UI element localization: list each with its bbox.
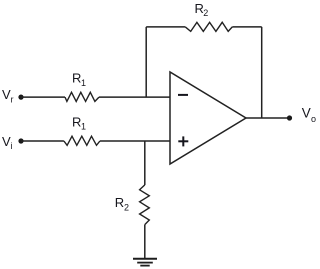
wire feedback top left horizontal [146, 26, 185, 28]
op-amp plus sign [178, 136, 188, 146]
wire R1 to non-inverting input [100, 140, 170, 142]
label R1 (top) [72, 71, 86, 88]
svg-text:i: i [11, 141, 13, 151]
svg-text:2: 2 [124, 202, 129, 212]
node Vr terminal dot [18, 95, 23, 100]
resistor R2 (to ground) [140, 185, 150, 225]
resistor R1 (top, inverting input) [65, 92, 99, 101]
op-amp U1 [170, 72, 246, 164]
op-amp minus sign [178, 94, 188, 96]
node Vo terminal dot [287, 115, 292, 120]
wire Vi input [21, 140, 64, 142]
svg-text:V: V [302, 106, 311, 121]
svg-text:1: 1 [81, 78, 86, 88]
wire feedback right vertical [261, 27, 263, 118]
label R1 (bottom) [72, 114, 86, 131]
svg-text:r: r [11, 95, 14, 105]
wire R1 to inverting input [99, 96, 170, 98]
wire feedback top right horizontal [232, 26, 261, 28]
wire non-inverting node to R2 ground branch [144, 141, 146, 185]
svg-text:1: 1 [81, 122, 86, 132]
resistor R2 (feedback) [185, 22, 232, 31]
resistor R1 (bottom, non-inverting input) [64, 136, 100, 145]
node Vo label [302, 106, 316, 124]
label R2 (ground leg) [115, 195, 129, 213]
label R2 (feedback) [195, 1, 209, 18]
wire Vr input [21, 96, 65, 98]
node Vr label [2, 87, 14, 105]
node Vi label [2, 134, 13, 151]
node Vi terminal dot [18, 138, 23, 143]
svg-text:R: R [115, 195, 124, 210]
svg-text:R: R [72, 114, 81, 129]
wire feedback left vertical [145, 27, 147, 97]
svg-text:R: R [72, 71, 81, 86]
svg-text:o: o [311, 114, 316, 124]
ground [133, 259, 157, 266]
wire R2 to ground [144, 225, 146, 259]
wire output [246, 117, 289, 119]
svg-text:2: 2 [203, 8, 208, 18]
